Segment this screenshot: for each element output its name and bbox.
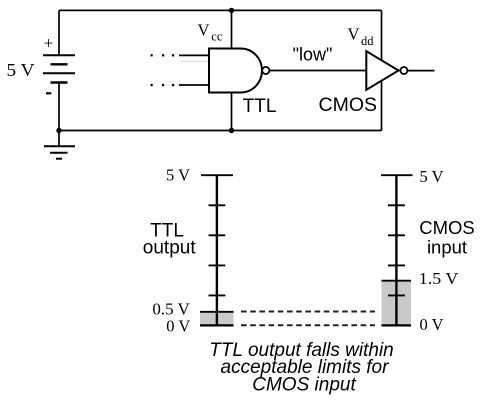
label TTL output [143, 220, 197, 258]
nand gate U1 (TTL) [209, 49, 269, 93]
CMOS scale 0 V level line [382, 324, 412, 326]
label Vdd [348, 25, 375, 49]
svg-text:CMOS input: CMOS input [252, 375, 356, 396]
wire Vcc vertical through TTL gate to ground rail [231, 10, 233, 130]
TTL output scale axis [216, 175, 218, 325]
wire input 2 to NAND [179, 84, 210, 86]
wire (faint ghost line below input 1) [181, 60, 210, 62]
TTL output scale: acceptable low region (0 to 0.5 V) [200, 312, 234, 326]
dashed line 0 V level [241, 324, 375, 326]
svg-text:dd: dd [361, 34, 374, 48]
svg-text:CMOS: CMOS [319, 94, 378, 116]
TTL scale tick 2 V [209, 264, 226, 266]
svg-text:TTL: TTL [243, 96, 277, 117]
input ellipsis dots (bottom input) [151, 84, 175, 86]
wire bottom rail [59, 130, 382, 132]
svg-text:5 V: 5 V [420, 167, 444, 186]
CMOS input scale: acceptable low region (0 to 1.5 V) [382, 281, 412, 326]
input ellipsis dots (top input) [151, 54, 175, 56]
svg-text:input: input [427, 237, 467, 258]
cmos buffer U2 [366, 51, 407, 90]
CMOS scale tick 5 V [381, 174, 413, 176]
battery - polarity label [46, 92, 51, 94]
CMOS scale tick 1 V [388, 294, 405, 296]
svg-text:CMOS: CMOS [419, 217, 475, 238]
CMOS scale tick 4 V [388, 204, 405, 206]
label Vcc [198, 21, 223, 44]
TTL scale 0 V level line [200, 324, 234, 326]
svg-text:output: output [143, 238, 197, 259]
node TTL ground junction [229, 128, 234, 133]
node Vcc rail junction [229, 8, 234, 13]
wire NAND output to CMOS input [270, 70, 367, 72]
wire top rail [59, 9, 382, 11]
label CMOS input [419, 217, 475, 258]
wire battery negative to bottom rail [58, 83, 60, 131]
svg-text:V: V [198, 21, 210, 40]
CMOS input scale axis [395, 175, 397, 325]
wire CMOS output [407, 70, 434, 72]
svg-text:V: V [348, 25, 360, 44]
CMOS scale tick 3 V [388, 234, 405, 236]
TTL scale tick 4 V [209, 204, 226, 206]
dashed line 0.5 V level [241, 311, 375, 313]
svg-text:5 V: 5 V [166, 166, 190, 185]
battery B1 (5 V, two cells) [43, 55, 75, 82]
TTL scale tick 5 V [201, 174, 233, 176]
svg-text:+: + [44, 34, 54, 53]
svg-text:0 V: 0 V [166, 317, 190, 336]
TTL scale tick 3 V [209, 234, 226, 236]
svg-text:0 V: 0 V [420, 315, 444, 334]
wire input 1 to NAND [179, 54, 210, 56]
wire Vdd vertical through CMOS buffer [381, 10, 383, 130]
svg-text:5 V: 5 V [7, 60, 35, 80]
ground [44, 131, 75, 159]
TTL scale tick 1 V [209, 294, 226, 296]
wire battery positive to top rail [58, 10, 60, 55]
CMOS scale 1.5 V level line [382, 280, 412, 282]
CMOS scale tick 2 V [388, 264, 405, 266]
svg-text:1.5 V: 1.5 V [419, 269, 459, 288]
svg-text:cc: cc [211, 30, 223, 44]
TTL scale 0.5 V level line [200, 311, 234, 313]
svg-text:"low": "low" [293, 45, 333, 65]
caption: TTL output falls within acceptable limits for CMOS input [209, 340, 393, 396]
node battery/ground junction [56, 128, 61, 133]
